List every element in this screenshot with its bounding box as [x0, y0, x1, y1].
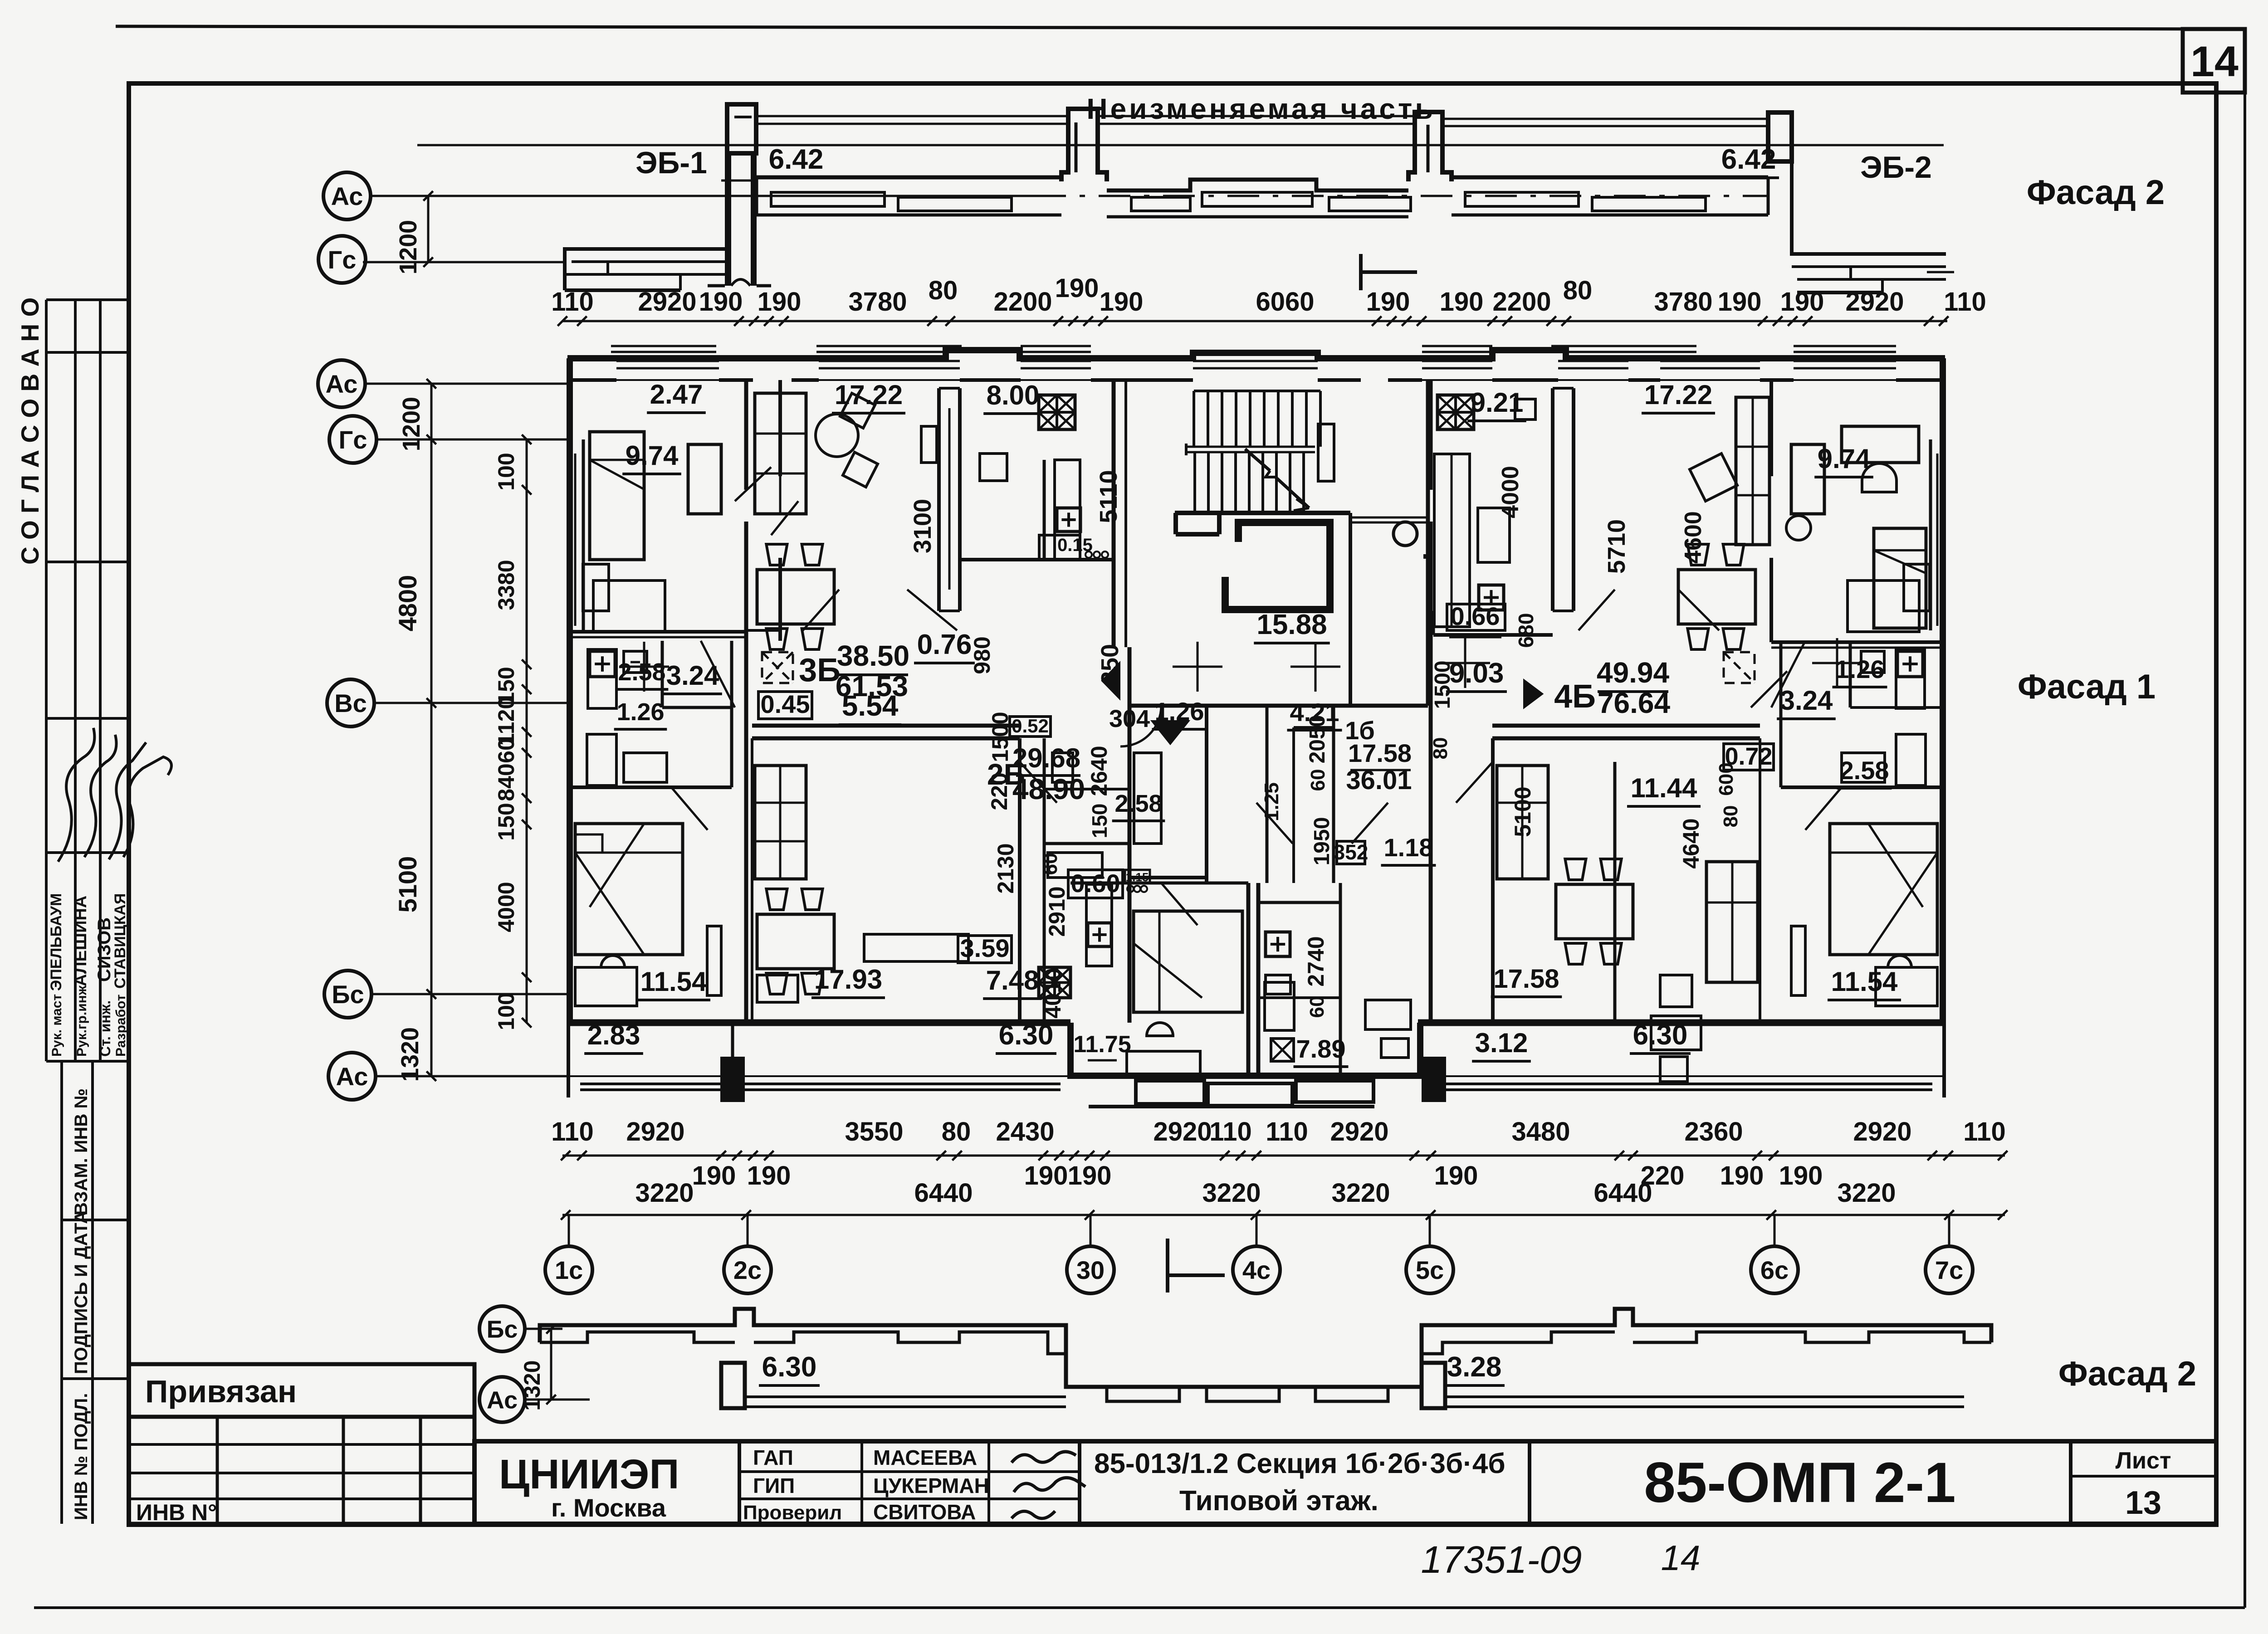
svg-text:4с: 4с [1242, 1256, 1271, 1284]
svg-text:Фасад 2: Фасад 2 [2027, 173, 2165, 212]
stair flight diagonal arrow [1245, 449, 1270, 471]
door arcs vestibule [1120, 706, 1161, 746]
svg-text:4010: 4010 [1040, 968, 1066, 1018]
stair mid rail double [1186, 446, 1315, 448]
ooo dots [1127, 886, 1134, 892]
svg-text:680: 680 [1514, 613, 1538, 648]
svg-text:Фасад 1: Фасад 1 [2018, 668, 2156, 706]
svg-text:1200: 1200 [395, 220, 422, 274]
furn room 17.93: sofa lower [755, 889, 806, 1010]
svg-text:7с: 7с [1935, 1256, 1963, 1284]
svg-text:150: 150 [1088, 804, 1111, 839]
stamp strip table [45, 300, 48, 1061]
svg-text:150: 150 [494, 803, 519, 840]
svg-text:190: 190 [1068, 1161, 1112, 1190]
svg-text:3220: 3220 [1202, 1178, 1261, 1208]
svg-text:3.24: 3.24 [666, 660, 719, 691]
furn wc 0.60 [1052, 753, 1073, 782]
furn kitchen 7.48 [1039, 967, 1070, 998]
svg-text:1.25: 1.25 [1261, 782, 1283, 821]
svg-text:980: 980 [969, 636, 995, 674]
bottom dim line1 [562, 1155, 2005, 1157]
svg-text:7.89: 7.89 [1296, 1034, 1346, 1063]
svg-text:110: 110 [551, 1117, 594, 1146]
balcony slab right bottom [1445, 1395, 1964, 1398]
bottom outer wall right section [1418, 1019, 1945, 1026]
furn vestibule closet [1134, 753, 1161, 844]
svg-text:6440: 6440 [1593, 1178, 1652, 1208]
svg-text:2920: 2920 [1330, 1117, 1388, 1146]
svg-text:8.00: 8.00 [987, 380, 1040, 410]
signatures [1012, 1452, 1076, 1463]
bottom dim line2 [562, 1214, 2005, 1216]
svg-text:Фасад 2: Фасад 2 [2058, 1355, 2196, 1393]
svg-text:190: 190 [692, 1161, 736, 1190]
furn bedroom 11.54: pouf [601, 956, 625, 967]
svg-text:0.45: 0.45 [761, 690, 810, 718]
svg-text:МАСЕЕВА: МАСЕЕВА [873, 1446, 977, 1469]
vestibule walls center [1129, 704, 1428, 708]
svg-text:60: 60 [494, 738, 519, 763]
svg-text:7.48: 7.48 [986, 965, 1039, 995]
svg-text:6.30: 6.30 [1633, 1019, 1688, 1051]
svg-text:3220: 3220 [1331, 1178, 1390, 1208]
svg-text:3100: 3100 [909, 499, 936, 553]
svg-text:29.68: 29.68 [1012, 743, 1080, 773]
right kitchen closet wall [1551, 388, 1554, 611]
svg-text:Неизменяемая часть: Неизменяемая часть [1086, 93, 1435, 125]
svg-text:80: 80 [929, 276, 958, 305]
svg-text:Разработ: Разработ [113, 995, 128, 1057]
stair upper landing box [1318, 424, 1334, 481]
left bath walls [570, 785, 732, 789]
axis Gc plan [329, 416, 376, 463]
corridor double wall left [752, 724, 1020, 728]
furn 11.75: sink [1147, 1023, 1173, 1036]
furn bedroom 9.74: wardrobe [688, 444, 721, 514]
svg-text:1500: 1500 [987, 712, 1013, 762]
svg-text:Ас: Ас [336, 1062, 368, 1091]
top facade axis circles [323, 172, 371, 219]
svg-text:2910: 2910 [1044, 886, 1070, 937]
corridor wall below stair-left [1128, 647, 1132, 1023]
top balcony ledges [611, 345, 716, 347]
furn living 17.22: sofa [755, 393, 806, 514]
furn right 17.58: sofa [1706, 862, 1758, 982]
axis Ac bottom facade [479, 1377, 525, 1422]
svg-text:2920: 2920 [1853, 1117, 1911, 1146]
label 352 [1337, 841, 1365, 864]
svg-text:17.58: 17.58 [1348, 739, 1412, 767]
inventory table [129, 1417, 474, 1524]
privyazan box [129, 1364, 474, 1417]
section mark top [1359, 254, 1363, 290]
svg-text:ЭБ-2: ЭБ-2 [1860, 150, 1932, 185]
svg-text:1320: 1320 [519, 1360, 545, 1410]
svg-text:3220: 3220 [635, 1178, 694, 1208]
svg-text:2.58: 2.58 [618, 658, 665, 686]
svg-text:2200: 2200 [993, 287, 1052, 317]
furn living 17.22: dining table [757, 570, 834, 624]
party wall 2s [744, 380, 748, 490]
svg-text:190: 190 [1718, 287, 1762, 317]
svg-text:Ас: Ас [487, 1386, 518, 1414]
furn right 11.54: dresser [1876, 967, 1937, 1006]
svg-text:190: 190 [1779, 1161, 1823, 1190]
svg-text:76.64: 76.64 [1598, 687, 1671, 719]
stair bottom edge wall [1175, 511, 1350, 515]
svg-text:4000: 4000 [1497, 466, 1524, 518]
svg-text:190: 190 [1055, 273, 1099, 303]
svg-text:80: 80 [1720, 805, 1742, 828]
svg-text:11.75: 11.75 [1073, 1031, 1131, 1058]
Ac axis thin line across bottom [567, 1075, 1070, 1077]
svg-text:190: 190 [1024, 1161, 1068, 1190]
furn bedroom 9.74 left: bed [590, 432, 644, 560]
svg-text:85-013/1.2 Секция 1б·2б·3б·4б: 85-013/1.2 Секция 1б·2б·3б·4б [1094, 1448, 1505, 1479]
axis Vc plan [327, 679, 374, 727]
axis Bc plan [324, 971, 371, 1018]
svg-text:3.12: 3.12 [1475, 1028, 1528, 1058]
top dim line [562, 320, 1947, 322]
svg-text:АЛЕШИНА: АЛЕШИНА [71, 896, 90, 986]
svg-text:3.59: 3.59 [960, 934, 1010, 962]
svg-text:ГИП: ГИП [753, 1474, 795, 1497]
top wall windows (double thin) [616, 360, 719, 362]
svg-text:ПОДПИСЬ И ДАТА: ПОДПИСЬ И ДАТА [71, 1211, 91, 1374]
kitchen 7.48 walls [1043, 844, 1046, 1023]
refuse chute circle [1393, 522, 1417, 546]
svg-text:5100: 5100 [1510, 786, 1535, 837]
svg-text:190: 190 [1440, 287, 1484, 317]
furn right 9.74: diamond+circle [1690, 454, 1737, 501]
svg-text:304: 304 [1109, 705, 1150, 732]
furn right 11.54: wardrobe [1791, 926, 1805, 995]
svg-text:Бс: Бс [487, 1316, 518, 1343]
svg-text:2.58: 2.58 [1114, 790, 1162, 817]
furn bedroom 11.54: double bed [575, 824, 683, 955]
door swing diagonals [735, 467, 771, 501]
svg-text:110: 110 [1944, 287, 1986, 317]
svg-text:190: 190 [758, 287, 802, 317]
furn right bedroom 11.54: bed [1830, 824, 1937, 955]
svg-text:3.28: 3.28 [1447, 1351, 1502, 1383]
bottom scan line [34, 1606, 2245, 1609]
svg-text:110: 110 [551, 287, 594, 317]
plan right outer wall [1940, 358, 1946, 1025]
svg-text:3Б: 3Б [799, 652, 841, 688]
svg-text:Рук.гр.инж: Рук.гр.инж [74, 985, 89, 1057]
svg-text:2130: 2130 [993, 843, 1018, 893]
porch 5s [1422, 1057, 1446, 1102]
right apartment corridor double wall [1492, 724, 1760, 728]
svg-text:Вс: Вс [334, 689, 367, 717]
right wardrobe wall [1613, 762, 1617, 844]
right bath walls [1781, 785, 1943, 789]
label 0.45 [758, 692, 812, 719]
svg-text:3550: 3550 [845, 1117, 903, 1146]
svg-text:48.90: 48.90 [1012, 773, 1085, 805]
parapet chimney mid-right (axis 5s) [1408, 112, 1452, 181]
label 0.15 top [1049, 535, 1050, 536]
right page edge line [2244, 28, 2246, 1608]
svg-text:190: 190 [1100, 287, 1144, 317]
svg-text:6060: 6060 [1256, 287, 1314, 317]
furn right bedroom 9.74: bed [1874, 528, 1926, 628]
porch block 5s bottom [1422, 1363, 1445, 1408]
stair right wall [1426, 380, 1430, 706]
list box [2071, 1475, 2216, 1478]
title block [474, 1441, 2216, 1524]
svg-text:0.76: 0.76 [917, 629, 972, 660]
svg-text:60: 60 [1306, 996, 1328, 1018]
furn living 17.22: round table + diamonds [816, 414, 858, 457]
svg-text:2740: 2740 [1303, 936, 1329, 986]
entrance arrows [1102, 663, 1119, 698]
svg-text:2640: 2640 [1086, 746, 1112, 796]
label 1.15ooo left [1125, 870, 1150, 883]
label 0.60 [1068, 870, 1123, 898]
svg-text:Проверил: Проверил [743, 1502, 842, 1524]
svg-text:60: 60 [1039, 853, 1061, 875]
furn hall wardrobe right of bath [1365, 1000, 1411, 1029]
svg-text:2.83: 2.83 [587, 1020, 640, 1050]
dot near circle [1423, 554, 1428, 559]
svg-text:4800: 4800 [393, 575, 422, 632]
svg-text:190: 190 [1780, 287, 1824, 317]
svg-text:13: 13 [2125, 1485, 2161, 1521]
svg-text:4000: 4000 [494, 882, 519, 932]
svg-text:49.94: 49.94 [1597, 656, 1670, 689]
svg-text:17.93: 17.93 [814, 964, 882, 995]
vent shaft walls [1266, 706, 1269, 883]
svg-text:190: 190 [1434, 1161, 1478, 1190]
svg-text:220: 220 [987, 772, 1012, 810]
furn right living 17.22: sofa [1736, 397, 1769, 545]
parapet chimney mid-left (axis 30) [1061, 109, 1107, 181]
lower-left apartment inner walls [1018, 738, 1022, 1023]
svg-text:1с: 1с [555, 1256, 583, 1284]
stamp signatures squiggles [58, 728, 94, 862]
svg-text:3480: 3480 [1511, 1117, 1570, 1146]
bath 7.89 inner walls [1258, 901, 1340, 904]
svg-text:17.22: 17.22 [1644, 380, 1712, 410]
stair left wall [1112, 380, 1116, 647]
svg-text:11.44: 11.44 [1631, 773, 1697, 803]
svg-text:Рук. маст: Рук. маст [49, 994, 64, 1057]
axis Bc bottom facade [479, 1306, 525, 1351]
svg-text:ИНВ N°: ИНВ N° [136, 1500, 217, 1525]
long ref line y=320 [417, 144, 1944, 146]
right slab stack [1792, 161, 1946, 254]
axis line Ac top [370, 195, 1034, 197]
balcony double lines bottom left [580, 1083, 720, 1085]
left outer dim line [430, 384, 433, 1076]
svg-text:6440: 6440 [914, 1178, 973, 1208]
svg-text:1500: 1500 [1431, 661, 1455, 709]
elevator / smoke block [1225, 522, 1330, 610]
svg-text:ЦУКЕРМАН: ЦУКЕРМАН [873, 1474, 989, 1497]
section mark near 4c bottom [1166, 1239, 1169, 1293]
svg-text:60: 60 [1307, 769, 1329, 791]
wc 0.60 walls [1043, 738, 1046, 844]
svg-text:110: 110 [1963, 1117, 2006, 1146]
svg-text:85-ОМП 2-1: 85-ОМП 2-1 [1644, 1451, 1955, 1514]
svg-text:Гс: Гс [328, 245, 357, 274]
svg-text:Типовой этаж.: Типовой этаж. [1179, 1485, 1378, 1517]
central lower block outline [1070, 1023, 1420, 1076]
balcony slab left bottom [745, 1395, 1066, 1398]
svg-text:2920: 2920 [1845, 287, 1904, 317]
furn right 17.58 room: table [1556, 884, 1633, 939]
main facade band [757, 176, 1061, 180]
label 0.72 [1724, 744, 1774, 770]
svg-text:3.24: 3.24 [1780, 685, 1833, 716]
signature rows [739, 1470, 1080, 1473]
furn right room small desk [1651, 1016, 1701, 1050]
svg-text:6.42: 6.42 [769, 144, 824, 175]
facade sill boxes [771, 192, 885, 206]
furn bedroom 11.54: wardrobe strip [707, 926, 721, 995]
svg-text:3380: 3380 [494, 560, 519, 610]
svg-text:ЭПЕЛЬБАУМ: ЭПЕЛЬБАУМ [48, 893, 65, 991]
balcony end walls [567, 1025, 570, 1097]
svg-text:80: 80 [1563, 276, 1593, 305]
svg-text:5110: 5110 [1095, 470, 1122, 523]
svg-text:14: 14 [1661, 1538, 1701, 1578]
svg-text:4640: 4640 [1678, 818, 1704, 868]
entry steps below central block [1136, 1081, 1204, 1104]
wall bedroom/living upper [778, 380, 782, 476]
svg-text:110: 110 [1209, 1117, 1252, 1146]
svg-text:100: 100 [494, 453, 519, 490]
svg-text:Привязан: Привязан [145, 1374, 297, 1409]
svg-text:3780: 3780 [848, 287, 907, 317]
svg-text:80: 80 [942, 1117, 971, 1146]
svg-text:3220: 3220 [1837, 1178, 1896, 1208]
svg-text:9.74: 9.74 [626, 440, 679, 471]
svg-text:Лист: Лист [2116, 1448, 2171, 1474]
furn right kitchen 9.21: stove xbox [1437, 395, 1474, 429]
svg-text:2920: 2920 [626, 1117, 684, 1146]
svg-text:36.01: 36.01 [1346, 766, 1412, 795]
stair treads upper flight [1193, 391, 1195, 447]
svg-text:80: 80 [1429, 737, 1452, 760]
svg-text:11.54: 11.54 [640, 966, 707, 997]
svg-text:17351-09: 17351-09 [1421, 1538, 1582, 1581]
kitchen counter wall right [1043, 460, 1046, 560]
svg-text:Ас: Ас [331, 182, 363, 210]
svg-text:9.21: 9.21 [1471, 387, 1524, 418]
interior tick crosses [1173, 666, 1222, 668]
label 3.59 [958, 936, 1012, 963]
svg-text:840: 840 [494, 763, 519, 801]
furn living 17.22: tv [921, 426, 937, 463]
svg-text:СТАВИЦКАЯ: СТАВИЦКАЯ [112, 893, 129, 989]
axis line Gc top [363, 261, 565, 263]
furn bedroom 11.54: dresser [575, 967, 637, 1006]
svg-text:ЭБ-1: ЭБ-1 [635, 146, 707, 180]
svg-text:1200: 1200 [398, 397, 425, 451]
svg-text:3780: 3780 [1654, 287, 1712, 317]
svg-text:14: 14 [2190, 38, 2239, 86]
svg-text:1950: 1950 [1310, 817, 1334, 866]
svg-text:2с: 2с [733, 1256, 762, 1284]
svg-text:30: 30 [1076, 1256, 1105, 1284]
svg-text:100: 100 [494, 992, 519, 1030]
porch 2s [720, 1057, 745, 1102]
furn kitchen 8.00: table [980, 454, 1007, 481]
svg-text:2200: 2200 [1492, 287, 1551, 317]
axis Ac plan [318, 360, 365, 407]
axis circles bottom row [568, 1215, 570, 1246]
svg-text:352: 352 [1334, 840, 1369, 864]
svg-text:С О Г Л А С О В А Н О: С О Г Л А С О В А Н О [16, 298, 44, 565]
living/kitchen closet wall [937, 388, 941, 611]
furn bedroom 11.75: bed [1134, 911, 1242, 1012]
svg-text:Гс: Гс [339, 425, 367, 454]
svg-text:11.54: 11.54 [1831, 966, 1898, 997]
corridor wall right of stair [1349, 513, 1352, 706]
svg-text:190: 190 [747, 1161, 791, 1190]
svg-text:г. Москва: г. Москва [551, 1493, 666, 1522]
furn bath left: fixtures [588, 649, 616, 708]
svg-text:17.22: 17.22 [835, 380, 903, 410]
page number box 14 [2183, 29, 2245, 93]
bottom facade window sills left [540, 1332, 735, 1342]
label 0.66 [1447, 604, 1505, 630]
dim 1200 top [427, 196, 430, 262]
svg-text:190: 190 [699, 287, 743, 317]
furn bedroom 9.74: chair+desk [583, 564, 609, 611]
parapet chimney right (axis 6s) [1768, 112, 1792, 161]
svg-text:ЦНИИЭП: ЦНИИЭП [499, 1451, 679, 1497]
left slab stack [565, 249, 731, 290]
top scan line [116, 26, 2245, 29]
svg-text:110: 110 [1266, 1117, 1308, 1146]
rails [756, 115, 1068, 117]
svg-text:2920: 2920 [1153, 1117, 1212, 1146]
svg-text:2.58: 2.58 [1840, 756, 1889, 785]
svg-text:Ст. инж.: Ст. инж. [97, 1000, 113, 1057]
furn right 9.74: wardrobe [1791, 444, 1824, 514]
svg-text:2920: 2920 [638, 287, 696, 317]
stair window [1193, 360, 1318, 362]
left inner dim line [526, 439, 528, 1023]
svg-text:600: 600 [1715, 762, 1737, 795]
svg-text:6с: 6с [1760, 1256, 1789, 1284]
lower strip rotated labels [60, 1061, 63, 1524]
svg-text:ИНВ № ПОДЛ.: ИНВ № ПОДЛ. [71, 1393, 91, 1520]
svg-text:5710: 5710 [1603, 519, 1630, 574]
label 0.52 [1010, 717, 1051, 737]
furn 17.93: shelf right [864, 934, 968, 961]
svg-text:17.58: 17.58 [1493, 964, 1559, 994]
svg-text:СВИТОВА: СВИТОВА [873, 1500, 976, 1524]
plan top wall inner face [567, 378, 616, 382]
svg-text:6.30: 6.30 [762, 1351, 817, 1383]
stair landing parapet [1173, 513, 1178, 534]
svg-text:1.26: 1.26 [1835, 655, 1885, 683]
svg-text:2430: 2430 [996, 1117, 1054, 1146]
svg-text:Бс: Бс [332, 980, 364, 1009]
svg-text:Ас: Ас [326, 370, 358, 398]
bottom facade window sills right [1422, 1332, 1615, 1354]
balcony double lines bottom right [1446, 1083, 1565, 1085]
kitchen bottom wall [960, 558, 1114, 561]
svg-text:ВЗАМ. ИНВ №: ВЗАМ. ИНВ № [71, 1088, 91, 1215]
svg-text:190: 190 [1366, 287, 1410, 317]
